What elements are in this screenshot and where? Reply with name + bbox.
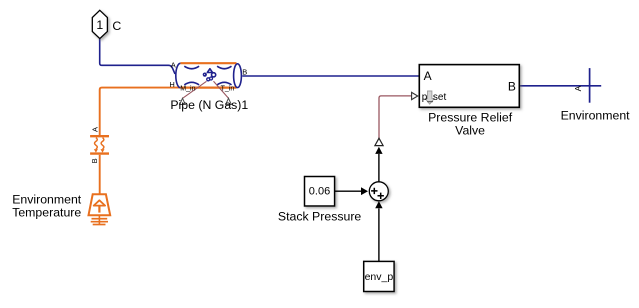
svg-text:A: A bbox=[171, 61, 176, 70]
svg-text:p_set: p_set bbox=[422, 92, 447, 103]
svg-text:Temperature: Temperature bbox=[12, 205, 81, 219]
svg-text:A: A bbox=[573, 85, 583, 91]
svg-text:env_p: env_p bbox=[365, 271, 394, 283]
svg-text:B: B bbox=[90, 158, 99, 163]
svg-text:T_in: T_in bbox=[221, 85, 235, 92]
svg-text:B: B bbox=[508, 79, 516, 93]
svg-text:Stack Pressure: Stack Pressure bbox=[278, 210, 362, 224]
svg-text:A: A bbox=[91, 127, 100, 132]
svg-text:Pipe (N Gas)1: Pipe (N Gas)1 bbox=[170, 98, 248, 112]
svg-text:B: B bbox=[242, 67, 247, 76]
svg-text:H: H bbox=[169, 80, 174, 89]
svg-text:C: C bbox=[112, 19, 121, 33]
svg-text:Environment: Environment bbox=[561, 108, 631, 122]
svg-text:A: A bbox=[424, 69, 432, 83]
svg-text:0.06: 0.06 bbox=[309, 185, 330, 197]
svg-text:Valve: Valve bbox=[455, 123, 485, 137]
svg-text:1: 1 bbox=[96, 18, 103, 32]
svg-text:M_in: M_in bbox=[180, 85, 195, 92]
